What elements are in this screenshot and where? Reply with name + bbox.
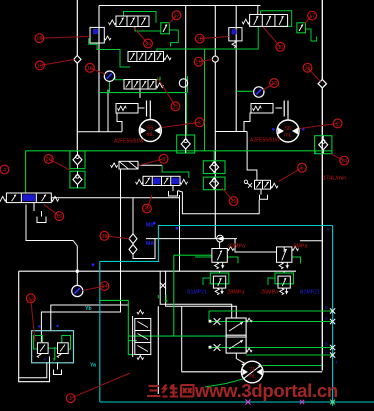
wire (117, 113, 122, 132)
travel motor control valve V9 (226, 318, 246, 353)
green hydraulic line (306, 29, 317, 41)
green hydraulic line (292, 257, 301, 264)
leader line for balloon 30 (263, 27, 280, 47)
wire (215, 131, 247, 133)
leader line for balloon 17 (169, 15, 177, 24)
green hydraulic line (314, 151, 316, 154)
svg-text:34: 34 (145, 42, 151, 48)
wire (26, 205, 77, 286)
svg-text:4: 4 (3, 168, 6, 174)
directional valve V10 (250, 15, 288, 27)
flushing orifice left (116, 104, 138, 114)
solenoid valve V6 (6, 193, 51, 203)
green hydraulic line (48, 347, 57, 349)
green hydraulic line (246, 354, 333, 356)
green hydraulic line (89, 38, 97, 44)
svg-text:28MPa: 28MPa (227, 290, 244, 296)
balloon 1 (66, 394, 75, 403)
svg-text:14: 14 (101, 284, 107, 290)
svg-text:18: 18 (271, 81, 277, 87)
green hydraulic line (204, 49, 206, 151)
leader line for balloon 33 (104, 236, 129, 239)
drain manifold wire (178, 191, 260, 214)
leader line for balloon 3 (138, 159, 163, 166)
wire (133, 239, 155, 259)
green hydraulic line (100, 300, 137, 354)
green hydraulic line (169, 30, 178, 47)
svg-text:3: 3 (162, 157, 165, 163)
svg-text:5MPa: 5MPa (293, 244, 307, 250)
svg-text:A2FE56/61W: A2FE56/61W (114, 139, 144, 145)
green hydraulic line (34, 336, 43, 350)
measuring point (179, 79, 187, 87)
svg-text:2: 2 (198, 120, 201, 126)
balloon 18 (270, 79, 279, 88)
check valve mid 2 (203, 177, 225, 190)
test point circle (212, 56, 218, 62)
balloon 4 (0, 165, 9, 174)
manual valve V5 (255, 180, 271, 189)
svg-text:S1MP21: S1MP21 (187, 290, 207, 296)
svg-text:29: 29 (230, 199, 236, 205)
leader line for balloon 15 (39, 37, 88, 39)
pressure reducing valve (left) (90, 27, 104, 43)
green hydraulic line (156, 77, 160, 80)
balloon 30 (276, 42, 285, 51)
directional valve V1 (116, 16, 149, 27)
svg-text:Mb: Mb (146, 223, 154, 229)
balloon 34 (144, 39, 153, 48)
balloon 15 (35, 34, 44, 43)
relief valve R1 (212, 249, 227, 263)
leader line for balloon 19 (199, 60, 213, 62)
wire (321, 0, 323, 371)
svg-text:B1MP21: B1MP21 (300, 290, 320, 296)
balloon 33 (100, 231, 109, 240)
balloon 13 (26, 294, 35, 303)
svg-text:mL: mL (284, 133, 292, 139)
leader line for balloon 24 (331, 154, 344, 161)
pressure reducing valve (right) (229, 28, 242, 41)
valve V5 feed (247, 132, 257, 181)
balloon 3 (159, 154, 168, 163)
green hydraulic line (135, 27, 161, 31)
relief valve R3 (210, 273, 229, 284)
green hydraulic line (109, 82, 111, 93)
green hydraulic line (62, 336, 71, 350)
pilot control line (cyan) (332, 226, 334, 407)
green hydraulic line (124, 12, 157, 23)
green hydraulic line (262, 365, 322, 367)
svg-text:1: 1 (69, 396, 72, 402)
wire (244, 113, 250, 133)
svg-text:32: 32 (144, 207, 150, 213)
svg-text:15: 15 (36, 36, 42, 42)
wire (276, 107, 283, 109)
svg-text:B: B (325, 342, 328, 347)
svg-text:A: A (325, 350, 328, 355)
leader line for balloon 16 (90, 68, 106, 75)
svg-text:Yb: Yb (85, 306, 92, 312)
wire (219, 242, 221, 249)
green hydraulic line (128, 335, 226, 337)
pilot control line (cyan) (99, 261, 101, 402)
balloon 19 (194, 57, 203, 66)
green hydraulic line (205, 379, 244, 387)
green hydraulic line (187, 76, 189, 93)
wire (235, 239, 277, 252)
wire (41, 169, 120, 342)
wire (19, 270, 296, 272)
leader line for balloon 13 (40, 59, 74, 65)
balloon 17 (308, 11, 317, 20)
pilot control line (cyan) (100, 401, 374, 403)
green hydraulic line (115, 77, 124, 80)
svg-text:A2FE56/61W: A2FE56/61W (250, 138, 280, 144)
green hydraulic line (236, 90, 253, 92)
svg-text:21: 21 (172, 104, 178, 110)
green hydraulic line (97, 43, 130, 67)
pilot valve a (37, 343, 48, 354)
wire (166, 271, 237, 318)
green hydraulic line (25, 151, 27, 193)
wire (185, 6, 187, 136)
test point diamond right (318, 80, 326, 88)
svg-text:T: T (335, 360, 338, 365)
balloon 32 (143, 204, 152, 213)
balloon 13 (36, 61, 45, 70)
leader line for balloon 2 (162, 122, 200, 127)
wire (76, 0, 78, 152)
svg-text:18: 18 (197, 37, 203, 43)
wire (182, 371, 242, 373)
wire (138, 107, 145, 109)
wire (33, 203, 35, 211)
green hydraulic line (213, 151, 215, 161)
green hydraulic line (165, 295, 167, 301)
pressure gauge right (254, 87, 264, 97)
test point diamond (74, 56, 81, 64)
svg-text:5: 5 (300, 166, 303, 172)
solenoid valve V4 (143, 176, 180, 185)
leader line for balloon 32 (147, 195, 152, 209)
watermark (147, 384, 194, 397)
wire (132, 198, 134, 234)
filter check 1 (70, 151, 85, 169)
wire (157, 306, 159, 394)
green hydraulic line (210, 321, 333, 323)
svg-text:13: 13 (37, 63, 43, 69)
port X marks (214, 318, 221, 325)
wire (263, 371, 323, 373)
svg-text:19: 19 (195, 60, 201, 66)
balloon 17 (172, 11, 181, 20)
green hydraulic line (128, 340, 137, 342)
svg-text:33: 33 (101, 234, 107, 240)
wire (99, 5, 261, 7)
leader line for balloon 14 (83, 286, 105, 290)
leader line for balloon 34 (133, 27, 148, 44)
svg-text:20: 20 (46, 157, 52, 163)
balloon 35 (303, 63, 312, 72)
wire (51, 305, 129, 331)
svg-text:P: P (44, 357, 47, 362)
svg-text:56: 56 (147, 126, 153, 132)
svg-text:13: 13 (28, 296, 34, 302)
directional valve V2 (128, 52, 164, 62)
wire (160, 271, 232, 318)
leader line for balloon 18 (200, 37, 229, 39)
svg-text:mL: mL (146, 132, 154, 138)
svg-text:T: T (53, 357, 56, 362)
leader line for balloon 29 (222, 188, 234, 201)
wire (236, 354, 244, 364)
svg-text:17: 17 (173, 13, 179, 19)
hydraulic motor bottom A6VM71 (241, 361, 263, 383)
leader line for balloon 35 (308, 68, 321, 82)
green hydraulic line (203, 278, 210, 285)
wire (287, 116, 289, 120)
balloon 16 (86, 63, 95, 72)
leader line for balloon 19 (44, 205, 59, 217)
check valve (left motor) (177, 135, 195, 153)
shuttle valve 1 (129, 234, 137, 244)
green hydraulic line (26, 150, 332, 152)
green hydraulic line (162, 165, 189, 178)
balloon 29 (229, 197, 238, 206)
svg-text:174L/min: 174L/min (323, 176, 347, 182)
wire (219, 271, 221, 273)
check valve mid 1 (203, 161, 225, 174)
check valve (right motor) (315, 136, 332, 154)
svg-text:mL: mL (248, 374, 256, 380)
hydraulic motor right A2FE56 (277, 120, 299, 142)
green hydraulic line (99, 92, 187, 94)
green hydraulic line (174, 254, 212, 256)
green hydraulic line (260, 11, 291, 27)
pilot control line (cyan) (100, 226, 333, 262)
wire (146, 238, 237, 240)
svg-text:19: 19 (56, 214, 62, 220)
green hydraulic line (157, 295, 159, 299)
green hydraulic line (186, 93, 188, 135)
svg-text:32MPa: 32MPa (228, 244, 245, 250)
balloon 24 (340, 156, 349, 165)
svg-text:www.3dportal.cn: www.3dportal.cn (194, 380, 338, 401)
balloon 21 (171, 102, 180, 111)
green hydraulic line (209, 310, 333, 312)
remote control valve box (32, 331, 74, 363)
svg-text:B: B (325, 305, 328, 310)
green hydraulic line (195, 256, 212, 258)
balloon 20 (44, 155, 53, 164)
wire (149, 116, 151, 119)
wire (214, 6, 216, 239)
relief valve R2 (277, 247, 292, 262)
balloon 14 (100, 282, 109, 291)
svg-text:56: 56 (285, 126, 291, 132)
wire (77, 131, 122, 133)
svg-text:30: 30 (277, 45, 283, 51)
filter check 2 (70, 171, 85, 188)
green hydraulic line (208, 311, 210, 322)
svg-text:16: 16 (87, 66, 93, 72)
svg-text:2: 2 (336, 121, 339, 127)
leader line for balloon 2 (300, 123, 338, 128)
wire (41, 211, 43, 217)
main control valve V8 (135, 319, 151, 355)
directional valve V3 (124, 80, 156, 90)
pilot valve b (58, 343, 69, 354)
leader line for balloon 18 (263, 83, 275, 91)
green hydraulic line (54, 347, 56, 360)
flow control valve V7 (119, 161, 138, 169)
svg-text:17: 17 (309, 14, 315, 20)
balloon 19 (55, 212, 64, 221)
balloon 2 (333, 119, 342, 128)
leader line for balloon 5 (279, 168, 302, 182)
balloon 2 (195, 118, 204, 127)
pressure gauge left (104, 71, 114, 81)
flushing orifice right (251, 104, 273, 114)
svg-text:35: 35 (304, 66, 310, 72)
wire (51, 197, 179, 199)
svg-text:Ya: Ya (90, 363, 96, 369)
wire (179, 195, 181, 271)
pressure gauge lower (72, 285, 83, 296)
pilot relief valve right (green) (297, 23, 306, 33)
wire (283, 271, 285, 273)
svg-text:A: A (325, 316, 328, 321)
wire (181, 306, 183, 372)
tank enclosure (19, 271, 50, 382)
leader line for balloon 13 (31, 298, 35, 341)
pilot relief valve (green) (161, 23, 170, 34)
green hydraulic line (173, 255, 175, 336)
shuttle valve 2 (129, 245, 137, 255)
wire (98, 6, 100, 132)
leader line for balloon 1 (71, 373, 130, 398)
svg-text:MA: MA (146, 241, 154, 247)
wire (283, 247, 285, 252)
balloon 18 (195, 34, 204, 43)
wire (139, 90, 141, 99)
wire (235, 6, 237, 133)
orifice with check (217, 235, 224, 242)
relief valve R4 (275, 273, 294, 284)
wire (257, 6, 259, 15)
green hydraulic line (268, 278, 275, 285)
balloon 5 (298, 163, 307, 172)
svg-text:24: 24 (341, 159, 347, 165)
wire (300, 240, 322, 242)
leader line for balloon 17 (305, 16, 313, 24)
green hydraulic line (210, 347, 333, 349)
green hydraulic line (157, 26, 258, 51)
green hydraulic line (227, 257, 238, 264)
hydraulic motor left A2FE56 (139, 120, 161, 142)
wire (107, 90, 109, 132)
leader line for balloon 20 (49, 159, 70, 170)
leader line for balloon 21 (157, 77, 176, 106)
svg-text:26MPa: 26MPa (261, 290, 278, 296)
svg-text:71: 71 (249, 367, 255, 373)
